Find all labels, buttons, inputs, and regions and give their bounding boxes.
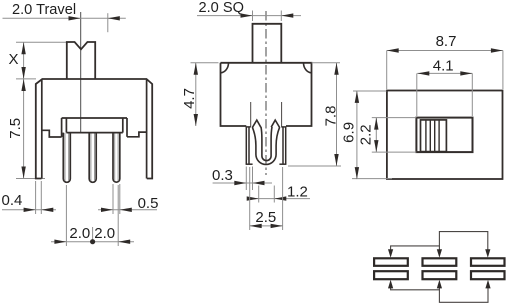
- svg-text:8.7: 8.7: [436, 33, 457, 50]
- dimension 7.8: [288, 63, 341, 166]
- window (top view): [416, 118, 472, 153]
- svg-text:2.0: 2.0: [69, 225, 90, 242]
- dimension X: [8, 42, 70, 79]
- spring tooth right: [271, 120, 280, 128]
- dimension 0.3: [212, 167, 272, 191]
- arrows bottom: [388, 280, 491, 289]
- left wall inner edge: [41, 80, 43, 179]
- body outline (front view): [36, 79, 152, 179]
- terminal strip right (side view): [279, 127, 286, 164]
- svg-text:0.4: 0.4: [2, 192, 23, 209]
- connection lines top: [391, 232, 488, 250]
- dimension 6.9: [340, 91, 392, 179]
- body (side view): [221, 63, 312, 126]
- dimension 7.5: [7, 79, 45, 179]
- center line: [80, 12, 82, 133]
- svg-text:2.0 SQ: 2.0 SQ: [199, 0, 244, 16]
- dimension 2.0 Travel: [3, 2, 126, 32]
- svg-text:2.2: 2.2: [357, 124, 374, 145]
- svg-text:6.9: 6.9: [340, 122, 357, 143]
- pad bottom-right: [471, 271, 505, 279]
- pin 1 (front view): [63, 133, 70, 183]
- dimension 2.0 SQ: [197, 0, 301, 21]
- dimension 4.1: [417, 58, 473, 116]
- right bottom step: [127, 132, 147, 137]
- corner radius arcs: [221, 63, 312, 73]
- pad top-middle: [423, 258, 457, 266]
- inner pocket lines: [251, 102, 282, 127]
- slider knob (top view): [421, 120, 447, 152]
- left bottom step: [42, 130, 62, 137]
- dimension 4.7: [181, 63, 219, 126]
- dimension 2.5: [250, 167, 283, 230]
- pin 2 (front view): [89, 133, 96, 183]
- connection lines bottom: [391, 288, 488, 302]
- svg-text:2.0: 2.0: [94, 225, 115, 242]
- contact spring U (side view): [252, 127, 279, 165]
- dimension 2.2: [357, 118, 416, 153]
- svg-text:2.0 Travel: 2.0 Travel: [12, 2, 76, 18]
- pin 3 (front view): [113, 133, 120, 183]
- dimension 1.2: [247, 184, 310, 203]
- svg-text:1.2: 1.2: [287, 184, 308, 201]
- dimension 0.5: [98, 184, 158, 214]
- knob (front view): [67, 42, 95, 79]
- svg-text:2.5: 2.5: [255, 209, 276, 226]
- svg-text:7.5: 7.5: [7, 118, 24, 139]
- pad bottom-middle: [423, 271, 457, 279]
- center line: [265, 11, 267, 175]
- svg-text:X: X: [8, 51, 18, 68]
- pad top-left: [374, 258, 408, 266]
- knob (side view): [253, 24, 282, 63]
- arrows top: [388, 249, 490, 258]
- terminal strip left (side view): [246, 127, 253, 164]
- dimension 2.0 2.0 (pin pitch): [51, 185, 134, 246]
- body (top view): [387, 91, 503, 180]
- right wall inner edge: [146, 80, 148, 179]
- pad bottom-left: [374, 271, 408, 279]
- dimension 8.7: [387, 33, 503, 89]
- pad top-right: [471, 258, 505, 266]
- dimension 0.4: [2, 181, 57, 214]
- spring tooth left: [252, 120, 260, 128]
- base plate (front view): [62, 118, 127, 137]
- svg-text:0.3: 0.3: [212, 167, 233, 184]
- svg-text:4.1: 4.1: [433, 58, 454, 75]
